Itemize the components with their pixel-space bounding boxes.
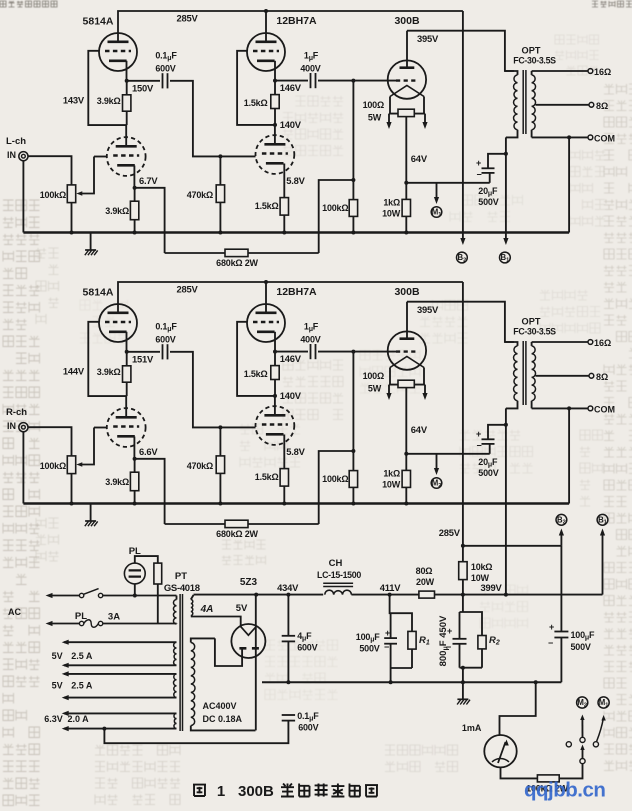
resistor R2	[478, 636, 486, 668]
svg-text:10W: 10W	[382, 209, 401, 219]
label AC400V DC 0.18A	[203, 701, 243, 724]
wire COM ground drop (L-ch)	[568, 137, 570, 232]
resistor 3.9k lower (R-ch)	[130, 459, 138, 504]
wire coupling cap to V1b-grid line (L-ch)	[170, 81, 256, 159]
resistor R1	[408, 631, 416, 668]
capacitor 100uF 500V right	[548, 546, 568, 682]
wire cathode U2b to 5.8V (R-ch)	[283, 435, 285, 469]
terminal M1 supply	[598, 697, 609, 709]
ground symbol (R-ch)	[85, 504, 98, 527]
resistor 1.5k lower (L-ch)	[280, 198, 288, 233]
label 1uF (R-ch)	[300, 322, 320, 345]
svg-text:100kΩ: 100kΩ	[40, 461, 66, 471]
svg-text:5814A: 5814A	[83, 16, 114, 28]
label 4uF 600V	[297, 631, 317, 653]
svg-text:5.8V: 5.8V	[286, 446, 305, 457]
label CH LC-15-1500	[317, 558, 361, 580]
wire 6.3V tap to 0.1uF return	[104, 721, 288, 743]
wire jack ground drop (L-ch)	[22, 161, 24, 233]
label 5Z3	[240, 577, 258, 588]
label 5V 2.5A first	[52, 651, 93, 661]
capacitor 20uF 500V (R-ch)	[476, 423, 508, 454]
svg-text:10kΩ: 10kΩ	[471, 562, 492, 572]
svg-text:6.3V: 6.3V	[44, 714, 63, 724]
svg-text:285V: 285V	[176, 13, 198, 24]
svg-text:285V: 285V	[439, 527, 461, 538]
terminal 8ohm (R-ch)	[589, 372, 608, 382]
svg-text:+: +	[549, 622, 554, 632]
svg-text:2.5 A: 2.5 A	[71, 681, 93, 691]
ground symbol supply	[457, 682, 470, 704]
label 100kohm grid (L-ch)	[322, 203, 348, 213]
svg-text:64V: 64V	[411, 153, 428, 164]
wire coupling cap to V1b-grid line (R-ch)	[170, 352, 256, 430]
label input R-ch IN (R-ch)	[6, 407, 27, 431]
rectifier 5Z3	[231, 624, 265, 658]
label 6.3V 2.0A	[44, 714, 89, 724]
resistor 470k grid leak (R-ch)	[216, 427, 224, 503]
wire 5Z3 filament to output	[255, 595, 257, 731]
wire 434V line	[194, 593, 324, 597]
label 146V (R-ch)	[280, 353, 302, 364]
label 395V (R-ch)	[417, 304, 439, 315]
wire secondary COM (L-ch)	[532, 135, 588, 139]
switch AC	[79, 589, 176, 598]
label AC	[8, 607, 21, 617]
svg-text:3.9kΩ: 3.9kΩ	[97, 367, 121, 377]
svg-text:LC-15-1500: LC-15-1500	[317, 570, 361, 580]
svg-text:DC 0.18A: DC 0.18A	[203, 714, 243, 724]
wire 150V node to coupling cap (L-ch)	[127, 80, 160, 82]
label 140V (L-ch)	[280, 119, 302, 130]
label 146V (L-ch)	[280, 82, 302, 93]
label 3.9kohm lower (R-ch)	[105, 477, 129, 487]
wire plate U2b up (L-ch)	[274, 125, 276, 144]
svg-text:100Ω: 100Ω	[363, 100, 384, 110]
label 0.1uF (L-ch)	[155, 51, 177, 74]
OPT primary winding (R-ch)	[505, 342, 518, 408]
resistor 470k grid leak (L-ch)	[216, 156, 224, 232]
svg-text:2.5 A: 2.5 A	[71, 651, 93, 661]
svg-text:1kΩ: 1kΩ	[383, 469, 400, 479]
svg-text:AC400V: AC400V	[203, 701, 237, 711]
label 100ohm 5W (L-ch)	[363, 100, 384, 123]
PT heater winding 5V-1	[62, 640, 177, 668]
label tube 12BH7A (L-ch)	[276, 15, 317, 27]
svg-text:COM: COM	[594, 133, 615, 143]
PT rectifier filament winding 4A	[191, 595, 241, 627]
label 64V (L-ch)	[411, 153, 428, 164]
wire bus to meter	[500, 682, 536, 735]
svg-text:500V: 500V	[571, 642, 591, 652]
transformer PT core	[180, 594, 182, 731]
svg-text:10W: 10W	[382, 480, 401, 490]
label 3.9kohm upper (R-ch)	[97, 367, 121, 377]
svg-text:140V: 140V	[280, 390, 302, 401]
svg-text:8Ω: 8Ω	[596, 101, 608, 111]
terminal 16ohm (L-ch)	[588, 67, 611, 77]
capacitor 1uF 400V (R-ch)	[311, 344, 316, 359]
svg-text:100Ω: 100Ω	[363, 371, 384, 381]
wire 395V to OPT primary top (R-ch)	[407, 302, 514, 342]
wire filter1 top join	[390, 595, 412, 632]
terminal B2 supply	[556, 514, 567, 545]
svg-text:+: +	[385, 628, 390, 638]
power triode 300B (R-ch)	[388, 331, 426, 369]
capacitor 20uF 500V (L-ch)	[476, 152, 508, 183]
label PL fuse	[75, 611, 87, 622]
wire contact to M2	[580, 715, 584, 738]
svg-text:500V: 500V	[478, 197, 498, 207]
wire supply ground bus	[262, 680, 561, 684]
label 399V	[481, 582, 503, 593]
terminal 8ohm (L-ch)	[589, 101, 608, 111]
svg-text:OPT: OPT	[522, 317, 541, 327]
potentiometer 100k (L-ch)	[67, 157, 107, 233]
capacitor 0.1uF 600V (L-ch)	[163, 73, 168, 88]
PT primary winding	[173, 596, 176, 625]
svg-text:AC: AC	[8, 607, 21, 617]
svg-text:−: −	[384, 642, 389, 652]
transformer OPT core (R-ch)	[523, 341, 526, 405]
wire meter to 100k	[501, 767, 538, 778]
svg-text:600V: 600V	[155, 335, 175, 345]
svg-text:FC-30-3.5S: FC-30-3.5S	[513, 327, 556, 337]
wire feedback stub (R-ch)	[319, 451, 354, 524]
label 64V (R-ch)	[411, 424, 428, 435]
label 3A	[108, 612, 120, 623]
svg-text:144V: 144V	[63, 366, 85, 377]
label 680kohm 2W (L-ch)	[216, 258, 258, 268]
wire cathode U1b to 6.7V node (L-ch)	[133, 166, 137, 190]
wire AC line bottom	[46, 621, 80, 626]
choke CH	[323, 583, 353, 594]
label tube 5814A (L-ch)	[83, 16, 114, 28]
label R1	[419, 635, 430, 647]
svg-text:470kΩ: 470kΩ	[187, 461, 213, 471]
pilot lamp PL	[124, 563, 145, 584]
svg-text:1.5kΩ: 1.5kΩ	[244, 369, 268, 379]
label PT GS-4018	[164, 571, 200, 594]
wire B1/399V drop from R-ch OPT	[505, 408, 507, 594]
wire 146V to 1uF cap (L-ch)	[275, 80, 308, 82]
triode U1b 5814A lower (R-ch)	[107, 408, 146, 447]
label 5V rect	[236, 603, 248, 614]
capacitor 0.1uF 600V supply	[282, 715, 295, 721]
resistor 3.9k upper (R-ch)	[123, 352, 131, 396]
svg-text:400V: 400V	[300, 64, 320, 74]
label 140V (R-ch)	[280, 390, 302, 401]
svg-text:1: 1	[217, 783, 225, 800]
transformer OPT core (L-ch)	[523, 70, 526, 134]
wire plate U2b up (R-ch)	[274, 396, 276, 415]
svg-text:PT: PT	[175, 571, 187, 582]
label 5.8V (R-ch)	[286, 446, 305, 457]
wire AC line top	[46, 593, 80, 598]
label 6.6V (R-ch)	[139, 446, 158, 457]
svg-text:5W: 5W	[368, 113, 382, 123]
terminal B1 supply	[597, 514, 608, 594]
svg-text:100kΩ: 100kΩ	[40, 190, 66, 200]
label 151V (R-ch)	[132, 354, 154, 365]
label 470kohm (R-ch)	[187, 461, 213, 471]
resistor 680k 2W feedback (L-ch)	[165, 249, 319, 256]
svg-text:300B: 300B	[238, 783, 274, 800]
label 100uF 500V first	[356, 632, 381, 654]
OPT secondary winding (R-ch)	[532, 342, 536, 408]
svg-text:600V: 600V	[298, 723, 318, 733]
label 1.5kohm upper (L-ch)	[244, 98, 268, 108]
wire channel ground rail (L-ch)	[23, 231, 569, 235]
label 5.8V (L-ch)	[286, 175, 305, 186]
svg-text:5.8V: 5.8V	[286, 175, 305, 186]
label tube 12BH7A (R-ch)	[276, 286, 317, 298]
svg-text:146V: 146V	[280, 353, 302, 364]
svg-text:1.5kΩ: 1.5kΩ	[244, 98, 268, 108]
svg-text:800μF 450V: 800μF 450V	[438, 615, 450, 666]
svg-text:IN: IN	[7, 150, 16, 160]
wire grid U1a to 143V line (R-ch)	[88, 322, 126, 396]
PT HV winding	[191, 638, 256, 730]
wire 1uF to 300B grid (R-ch)	[318, 350, 396, 354]
wire 8ohm tap (L-ch)	[536, 104, 590, 106]
label 395V (L-ch)	[417, 33, 439, 44]
svg-text:1mA: 1mA	[462, 723, 482, 733]
triode U2b 12BH7A lower (L-ch)	[256, 135, 295, 174]
svg-text:300B: 300B	[394, 286, 420, 298]
label PL lamp	[129, 546, 141, 557]
label 10kohm 10W	[471, 562, 492, 583]
label 1kohm 10W (L-ch)	[382, 198, 401, 219]
label 100kohm pot (R-ch)	[40, 461, 66, 471]
wire grid U2a to 140V node (L-ch)	[237, 51, 275, 125]
svg-text:151V: 151V	[132, 354, 154, 365]
svg-text:0.1μF: 0.1μF	[155, 51, 177, 63]
label 3.9kohm upper (L-ch)	[97, 96, 121, 106]
svg-text:411V: 411V	[380, 582, 402, 593]
potentiometer 100k (R-ch)	[67, 428, 107, 504]
svg-text:6.7V: 6.7V	[139, 175, 158, 186]
svg-text:395V: 395V	[417, 304, 439, 315]
wire plate 300B up (R-ch)	[406, 302, 408, 339]
svg-text:680kΩ 2W: 680kΩ 2W	[216, 529, 258, 539]
svg-text:16Ω: 16Ω	[594, 338, 611, 348]
label 680kohm 2W (R-ch)	[216, 529, 258, 539]
PT heater winding 6.3V	[62, 711, 177, 731]
wire 6.7V to feedback resistor (R-ch)	[135, 459, 165, 524]
wire B2 supply drop (L-ch)	[460, 11, 465, 245]
label 3.9kohm lower (L-ch)	[105, 206, 129, 216]
caption figure 1 300B single-ended amplifier	[193, 783, 378, 800]
svg-text:470kΩ: 470kΩ	[187, 190, 213, 200]
hum pot 100ohm 5W (R-ch)	[386, 380, 427, 400]
resistor lamp dropper	[154, 563, 162, 623]
wire 399V line	[461, 593, 603, 597]
resistor 100k 2W meter	[537, 764, 582, 782]
svg-text:500V: 500V	[359, 644, 379, 654]
wire cathode U2a to 146V node (R-ch)	[273, 332, 277, 354]
label 144V (R-ch)	[63, 366, 85, 377]
svg-text:0.1μF: 0.1μF	[297, 711, 319, 723]
wire 285V plate supply rail (L-ch)	[118, 9, 463, 42]
terminal M2 supply	[577, 697, 588, 709]
svg-text:600V: 600V	[297, 643, 317, 653]
wire 64V node to 20uF (L-ch)	[406, 182, 489, 184]
wire 285V plate supply rail (R-ch)	[118, 280, 463, 313]
wire 411V line	[351, 593, 419, 597]
svg-text:146V: 146V	[280, 82, 302, 93]
label 1mA	[462, 723, 482, 733]
wire COM ground drop (R-ch)	[568, 408, 570, 503]
wire filament legs 300B (R-ch)	[390, 368, 424, 385]
resistor 1k 10W cathode (L-ch)	[402, 199, 410, 232]
label 4A	[200, 604, 214, 615]
wire 1uF to 300B grid (L-ch)	[318, 79, 396, 83]
svg-text:COM: COM	[594, 404, 615, 414]
meter 1mA	[484, 735, 516, 767]
resistor 3.9k lower (L-ch)	[130, 188, 138, 233]
wire plate U2a to rail (R-ch)	[265, 282, 267, 313]
label 470kohm (L-ch)	[187, 190, 213, 200]
svg-text:140V: 140V	[280, 119, 302, 130]
switch blade arrow	[580, 745, 584, 759]
svg-text:16Ω: 16Ω	[594, 67, 611, 77]
resistor 680k 2W feedback (R-ch)	[165, 520, 319, 527]
resistor 80ohm 20W	[419, 591, 463, 598]
wire cathode U1a to 150V node (L-ch)	[125, 61, 129, 83]
label 434V	[277, 582, 299, 593]
label R2	[489, 635, 500, 647]
svg-text:600V: 600V	[155, 64, 175, 74]
label 100uF 500V right	[571, 630, 596, 652]
wire plate U1b up to node (L-ch)	[125, 125, 127, 146]
svg-text:+: +	[476, 429, 481, 439]
svg-text:CH: CH	[329, 558, 343, 569]
label 1kohm 10W (R-ch)	[382, 469, 401, 490]
triode U1a 5814A upper (L-ch)	[99, 33, 137, 71]
wire jack to volume pot (L-ch)	[28, 156, 72, 185]
switch contact middle	[580, 737, 585, 742]
wire 146V to 1uF cap (R-ch)	[275, 351, 308, 353]
label 80ohm 20W	[416, 566, 435, 587]
svg-text:143V: 143V	[63, 95, 85, 106]
wire plate U2a to rail (L-ch)	[265, 11, 267, 42]
label 411V	[380, 582, 402, 593]
capacitor 100uF 500V first	[384, 613, 397, 668]
svg-text:399V: 399V	[481, 582, 503, 593]
svg-text:qqjbb.cn: qqjbb.cn	[524, 779, 605, 802]
label 285V supply	[439, 527, 461, 538]
label 800uF 450V	[438, 615, 450, 666]
resistor 10k 10W	[459, 546, 467, 595]
svg-text:80Ω: 80Ω	[416, 566, 433, 576]
label 100kohm grid (R-ch)	[322, 474, 348, 484]
switch contact unused	[566, 742, 571, 747]
svg-text:300B: 300B	[394, 15, 420, 27]
ground symbol (L-ch)	[85, 233, 98, 256]
svg-text:64V: 64V	[411, 424, 428, 435]
svg-text:1.5kΩ: 1.5kΩ	[255, 472, 279, 482]
svg-text:12BH7A: 12BH7A	[276, 15, 317, 27]
svg-text:R-ch: R-ch	[6, 407, 27, 418]
svg-text:3.9kΩ: 3.9kΩ	[105, 206, 129, 216]
svg-text:100μF: 100μF	[356, 632, 381, 644]
resistor 1.5k upper (L-ch)	[271, 81, 279, 127]
label 5V 2.5A second	[52, 681, 93, 691]
svg-text:−: −	[548, 638, 553, 648]
label 285V (L-ch)	[176, 13, 198, 24]
label 100kohm pot (L-ch)	[40, 190, 66, 200]
wire 5Z3 plate left to HV top	[215, 638, 242, 666]
label 100kohm 2W	[526, 784, 568, 794]
PT heater winding 5V-2	[62, 671, 177, 700]
svg-text:5814A: 5814A	[83, 287, 114, 299]
svg-text:285V: 285V	[176, 284, 198, 295]
svg-text:20W: 20W	[416, 577, 435, 587]
wire cathode U1a to 150V node (R-ch)	[125, 332, 129, 354]
wire filter2 top join	[460, 595, 483, 636]
svg-text:12BH7A: 12BH7A	[276, 286, 317, 298]
hum pot 100ohm 5W (L-ch)	[386, 109, 427, 129]
wire lamp bottom	[133, 584, 137, 598]
wire lamp top to dropper	[135, 556, 158, 563]
label OPT FC-30-3.5S (R-ch)	[513, 317, 556, 337]
label 1.5kohm upper (R-ch)	[244, 369, 268, 379]
svg-text:100μF: 100μF	[571, 630, 596, 642]
wire contact to M1	[597, 715, 606, 742]
svg-text:5Z3: 5Z3	[240, 577, 258, 588]
label 150V (L-ch)	[132, 83, 154, 94]
triode U2a 12BH7A upper (L-ch)	[247, 33, 285, 71]
terminal input jack (R-ch)	[19, 423, 28, 432]
label tube 300B (R-ch)	[394, 286, 420, 298]
capacitor 4uF 600V	[282, 595, 295, 683]
resistor 100k 300B grid leak (R-ch)	[349, 352, 357, 504]
wire filter1 bottom join	[391, 668, 412, 682]
label tube 5814A (R-ch)	[83, 287, 114, 299]
switch meter selector common	[580, 759, 585, 764]
svg-text:5W: 5W	[368, 384, 382, 394]
svg-text:5V: 5V	[52, 681, 63, 691]
svg-text:−: −	[476, 441, 481, 451]
triode U1b 5814A lower (L-ch)	[107, 137, 146, 176]
wire 6.7V to feedback resistor (L-ch)	[135, 188, 165, 253]
terminal B2 (L-ch)	[457, 252, 468, 263]
capacitor 0.1uF 600V (R-ch)	[163, 344, 168, 359]
wire feedback stub (L-ch)	[319, 180, 354, 253]
wire channel ground rail (R-ch)	[23, 502, 569, 506]
resistor 1.5k lower (R-ch)	[280, 469, 288, 504]
terminal COM (L-ch)	[588, 133, 615, 143]
svg-text:1kΩ: 1kΩ	[383, 198, 400, 208]
meter tap M1 (L-ch)	[431, 183, 442, 218]
svg-text:6.6V: 6.6V	[139, 446, 158, 457]
power triode 300B (L-ch)	[388, 60, 426, 98]
label tube 300B (L-ch)	[394, 15, 420, 27]
switch contact right	[593, 742, 598, 747]
svg-text:5V: 5V	[236, 603, 248, 614]
resistor 1.5k upper (R-ch)	[271, 352, 279, 398]
label 143V (L-ch)	[63, 95, 85, 106]
label 285V (R-ch)	[176, 284, 198, 295]
resistor 1k 10W cathode (R-ch)	[402, 470, 410, 503]
svg-text:GS-4018: GS-4018	[164, 583, 200, 594]
meter tap M2 (R-ch)	[431, 454, 442, 489]
svg-text:PL: PL	[75, 611, 87, 622]
svg-text:8Ω: 8Ω	[596, 372, 608, 382]
label 20uF 500V (R-ch)	[478, 457, 498, 478]
wire jack ground drop (R-ch)	[22, 432, 24, 504]
